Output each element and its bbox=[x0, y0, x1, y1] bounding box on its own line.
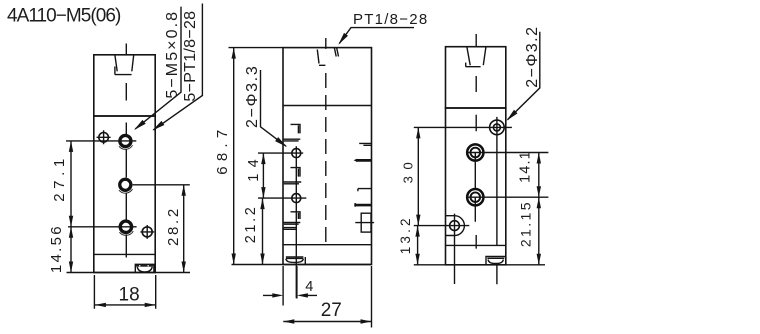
thread hook 3 bbox=[284, 212, 301, 224]
body outline bbox=[283, 48, 372, 265]
top edge extension bbox=[229, 47, 284, 49]
internal square port bbox=[361, 213, 371, 232]
svg-text:18: 18 bbox=[119, 285, 140, 306]
svg-text:27: 27 bbox=[321, 300, 342, 321]
D-boss with hole bbox=[446, 216, 465, 236]
dimension 14.56 bbox=[70, 227, 72, 273]
split line bbox=[283, 105, 372, 107]
svg-text:28.2: 28.2 bbox=[165, 206, 182, 246]
dimension 27.1 bbox=[70, 141, 72, 227]
port hole 2 bbox=[118, 178, 132, 192]
top port thread marks bbox=[317, 48, 338, 66]
svg-text:21.2: 21.2 bbox=[243, 205, 259, 244]
svg-text:2−Φ3.2: 2−Φ3.2 bbox=[524, 25, 541, 87]
side port 2 bbox=[467, 189, 483, 205]
dimension 14.1 bbox=[538, 153, 540, 198]
port hole 3 bbox=[119, 219, 134, 234]
bottom trough detail bbox=[286, 257, 305, 265]
screw hole bottom-right bbox=[142, 227, 152, 237]
thread hook 1 bbox=[284, 124, 301, 140]
svg-text:68.7: 68.7 bbox=[214, 125, 231, 175]
port hole 1 bbox=[118, 134, 132, 148]
svg-text:4: 4 bbox=[305, 279, 313, 295]
manual override trapezoid bbox=[115, 55, 134, 75]
dimension 4 bbox=[283, 266, 297, 306]
right internal passages bbox=[359, 143, 371, 145]
svg-text:14.56: 14.56 bbox=[48, 224, 65, 273]
valve body rect bbox=[94, 116, 155, 273]
bottom edge extensions bbox=[67, 272, 191, 274]
hole centerline bbox=[295, 146, 297, 298]
dimension 28.2 bbox=[183, 185, 185, 273]
svg-text:4A110−M5(06): 4A110−M5(06) bbox=[7, 6, 121, 27]
svg-text:5−M5×0.8: 5−M5×0.8 bbox=[164, 10, 181, 99]
valve body rect bbox=[446, 108, 506, 265]
svg-text:14: 14 bbox=[246, 153, 262, 182]
dimension 21.15 bbox=[538, 197, 540, 265]
hole phi3.3 upper bbox=[292, 149, 301, 158]
svg-text:30: 30 bbox=[400, 156, 415, 184]
bottom trough detail bbox=[486, 257, 505, 265]
svg-text:13.2: 13.2 bbox=[398, 215, 413, 254]
extension line port2 right bbox=[133, 184, 190, 186]
extension line through port1 bbox=[66, 140, 136, 142]
stem above solenoid bbox=[475, 34, 477, 47]
centerline dashes bbox=[474, 76, 477, 249]
solenoid top rect bbox=[446, 47, 506, 108]
hole phi3.3 lower bbox=[292, 194, 301, 203]
svg-text:PT1/8−28: PT1/8−28 bbox=[353, 11, 428, 28]
extension line through port3 bbox=[68, 226, 137, 228]
thread hook 2 bbox=[284, 168, 302, 184]
bottom edge extensions bbox=[414, 264, 545, 266]
bottom edge with extensions bbox=[232, 264, 372, 266]
bottom trough detail bbox=[135, 264, 154, 272]
stem above solenoid bbox=[125, 44, 127, 55]
svg-text:21.15: 21.15 bbox=[518, 200, 534, 247]
body internal line bbox=[94, 253, 155, 255]
dimension 27 bbox=[371, 266, 373, 328]
vertical centerline bbox=[325, 38, 327, 49]
dimension 18 bbox=[94, 275, 155, 309]
dimension 13.2 bbox=[417, 226, 419, 265]
extension line hole2 bbox=[258, 197, 306, 199]
svg-text:14.1: 14.1 bbox=[517, 150, 533, 183]
dimension 30 bbox=[417, 127, 419, 225]
svg-text:5−PT1/8−28: 5−PT1/8−28 bbox=[182, 11, 199, 102]
double passage line bbox=[283, 228, 297, 230]
extension line hole1 bbox=[258, 152, 303, 154]
dimension 14 bbox=[262, 153, 264, 198]
dimension 68.7 bbox=[233, 48, 235, 265]
internal line near bottom bbox=[446, 244, 506, 246]
top port hole bbox=[490, 120, 505, 135]
svg-text:2−Φ3.3: 2−Φ3.3 bbox=[244, 65, 261, 128]
svg-text:27.1: 27.1 bbox=[51, 154, 68, 202]
manual override trapezoid bbox=[466, 47, 486, 67]
screw hole top-left bbox=[99, 133, 109, 143]
centerline dashes bbox=[125, 83, 127, 258]
dimension 21.2 bbox=[262, 198, 264, 264]
side port 1 bbox=[467, 144, 483, 160]
solenoid top rect bbox=[94, 55, 155, 116]
internal line near bottom bbox=[283, 244, 372, 246]
